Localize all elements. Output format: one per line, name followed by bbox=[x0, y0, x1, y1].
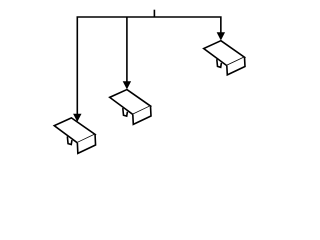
wire: left drop + horizontal bus line + right drop bbox=[77, 17, 221, 115]
device icon D1 (bottom-left): front side face bbox=[77, 134, 95, 153]
device icon D2 (middle): front side face bbox=[133, 106, 151, 124]
device icon D2 (middle): small tab/leg bbox=[123, 108, 128, 116]
device icon D1 (bottom-left): small tab/leg bbox=[67, 136, 72, 144]
wire: middle vertical drop line bbox=[126, 17, 128, 82]
arrowhead 1 bbox=[73, 114, 81, 122]
device icon D3 (top-right): front side face bbox=[227, 57, 245, 75]
device icon D1 (bottom-left): top face bbox=[54, 118, 95, 143]
wire: tick stub above bus bbox=[153, 10, 155, 17]
diagram canvas bbox=[0, 0, 300, 164]
arrowhead 2 bbox=[123, 81, 131, 89]
device icon D2 (middle): top face bbox=[110, 90, 151, 115]
device icon D3 (top-right): top face bbox=[204, 41, 245, 66]
device icon D3 (top-right): small tab/leg bbox=[217, 59, 222, 67]
arrowhead 3 bbox=[217, 32, 225, 40]
